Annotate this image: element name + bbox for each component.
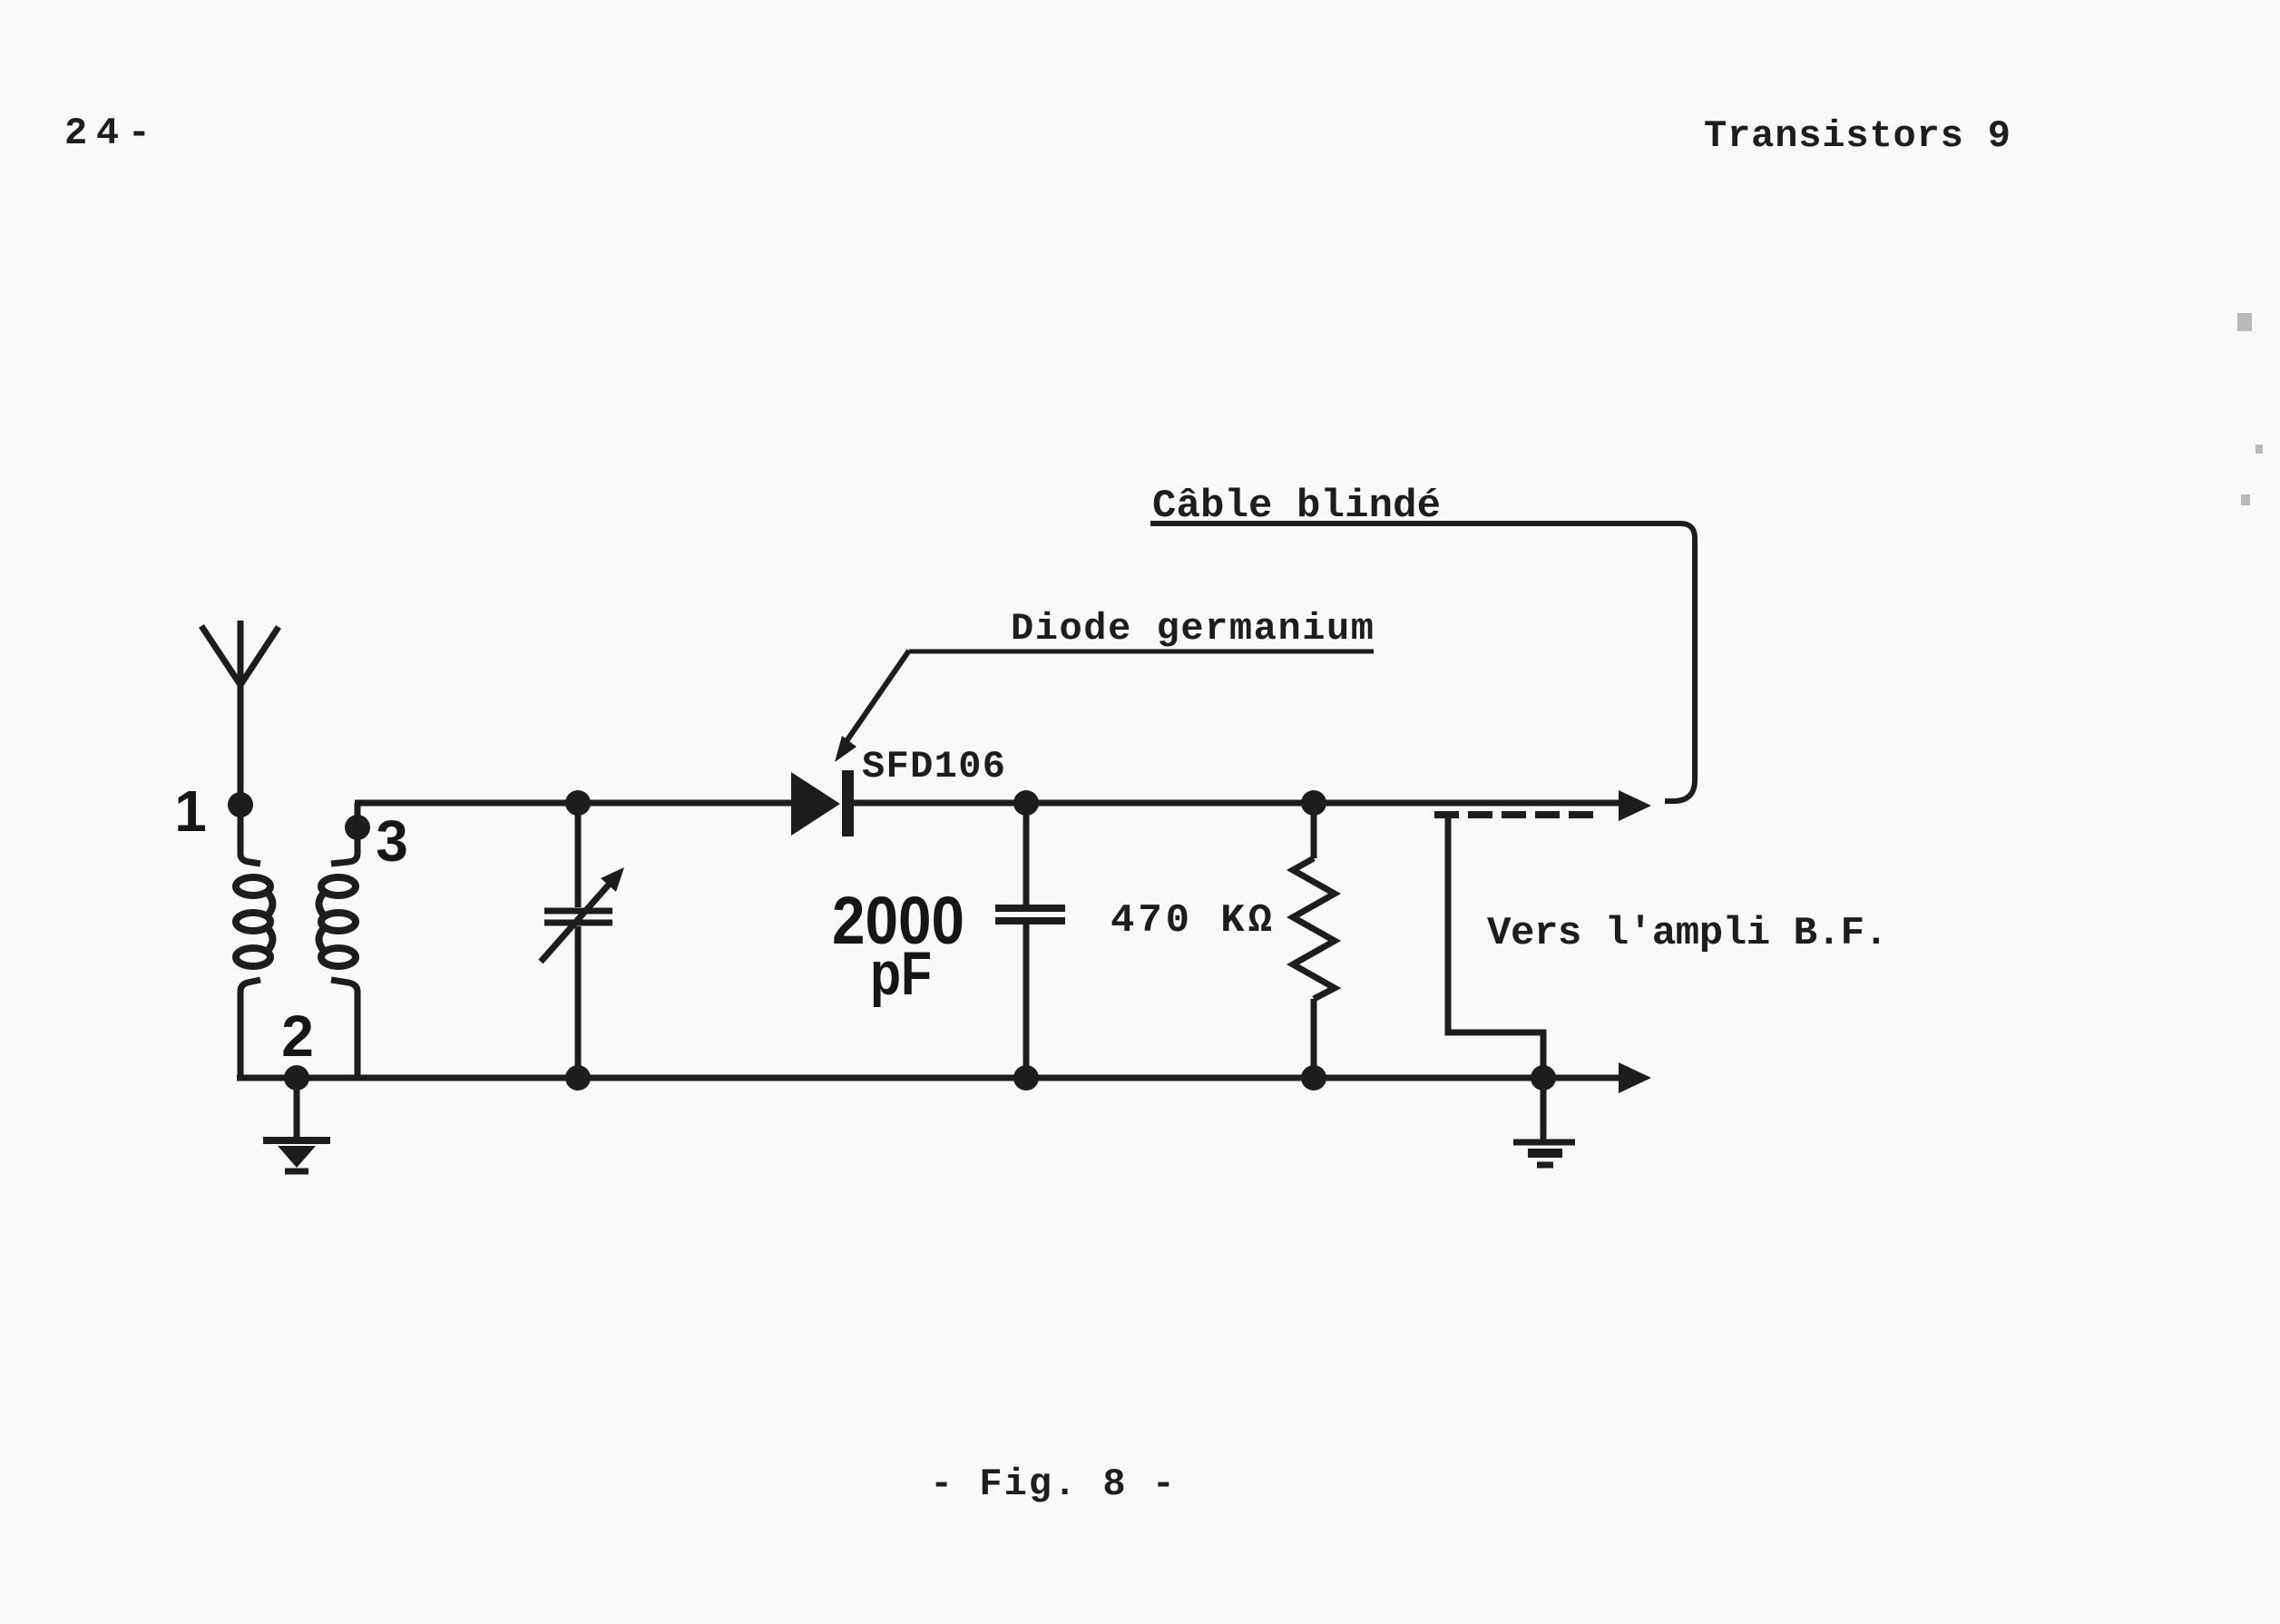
arrow top output (1619, 790, 1651, 821)
svg-text:2: 2 (281, 1003, 314, 1069)
diode D1 SFD106 (791, 770, 854, 836)
cable blinde underline and shield lead (1150, 523, 1695, 801)
wire top rail right (diode cathode to output arrow) (854, 800, 1622, 807)
wire node 3 riser (331, 803, 357, 864)
value label 470 KΩ (1111, 898, 1272, 944)
junction dot bottom of 2000pF capacitor (1013, 1065, 1039, 1091)
bottom rail wire (237, 1075, 1622, 1081)
junction dot bottom of variable capacitor (565, 1065, 591, 1091)
page number "24-" (64, 112, 151, 155)
label pin 3 (376, 808, 408, 874)
wire inner lead down-step to bottom rail (1448, 815, 1543, 1078)
svg-text:24-: 24- (64, 112, 151, 155)
antenna (201, 621, 279, 805)
node 3 junction dot (345, 815, 370, 840)
underline of Diode germanium (909, 650, 1374, 654)
svg-text:pF: pF (870, 939, 932, 1008)
leader arrow to diode (835, 651, 909, 762)
svg-text:Vers l'ampli B.F.: Vers l'ampli B.F. (1487, 911, 1888, 956)
arrow bottom output (1619, 1062, 1651, 1093)
capacitor C1 2000 pF (995, 803, 1065, 1078)
wire secondary coil to bottom rail (331, 980, 357, 1078)
node 2 junction dot (284, 1065, 309, 1091)
caption "- Fig. 8 -" (930, 1463, 1175, 1506)
label pin 2 (281, 1003, 314, 1069)
value label pF (870, 939, 932, 1008)
ground (right, below output) (1513, 1078, 1575, 1165)
variable capacitor CV (541, 803, 624, 1078)
node 1 junction dot (228, 792, 253, 817)
transformer primary coil L1 (236, 877, 273, 966)
svg-text:- Fig. 8 -: - Fig. 8 - (930, 1463, 1175, 1506)
label "Vers l'ampli B.F." (1487, 911, 1888, 956)
svg-text:3: 3 (376, 808, 408, 874)
value label 2000 (832, 883, 964, 958)
svg-text:1: 1 (174, 778, 207, 844)
junction dot bottom of resistor (1301, 1065, 1326, 1091)
resistor R1 470k (1293, 803, 1335, 1078)
svg-text:Diode germanium: Diode germanium (1011, 607, 1374, 651)
svg-text:SFD106: SFD106 (862, 745, 1005, 788)
scan speckles (2237, 313, 2263, 505)
label "Diode germanium" (1011, 607, 1374, 651)
label SFD106 (862, 745, 1005, 788)
junction dot bottom step (1531, 1065, 1556, 1091)
junction dot top of variable capacitor (565, 790, 591, 816)
junction dot top of 2000pF capacitor (1013, 790, 1039, 816)
junction dot top of resistor (1301, 790, 1326, 816)
header "Transistors 9" (1704, 114, 2011, 158)
svg-text:Transistors 9: Transistors 9 (1704, 114, 2011, 158)
ground (left, below node 2) (263, 1078, 330, 1171)
dashed inner conductor (1434, 811, 1599, 818)
label "Câble blindé" (1152, 484, 1441, 529)
transformer secondary coil L2 (319, 877, 357, 966)
wire node1 to primary coil (240, 805, 260, 864)
wire primary coil to bottom rail (240, 980, 260, 1078)
wire top rail left (node3 corner to diode anode) (355, 800, 791, 807)
label pin 1 (174, 778, 207, 844)
